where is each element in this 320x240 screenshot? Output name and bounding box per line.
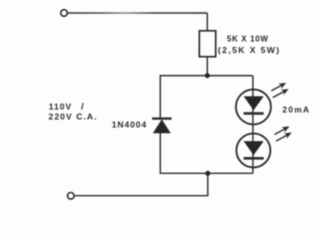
wire junction to bottom line xyxy=(207,173,209,195)
svg-text:220V C.A.: 220V C.A. xyxy=(49,112,98,122)
wire top horizontal xyxy=(68,12,208,14)
wire resistor to top rail xyxy=(206,57,208,76)
svg-text:1N4004: 1N4004 xyxy=(112,119,147,129)
wire diode branch upper xyxy=(159,75,161,118)
svg-text:(2,5K X 5W): (2,5K X 5W) xyxy=(218,45,281,55)
LED LED2 xyxy=(236,133,270,167)
terminal bottom-left xyxy=(68,193,75,200)
svg-text:110V: 110V xyxy=(49,101,72,111)
diode D1 1N4004 (pointing up) xyxy=(152,119,172,134)
LED1 emission arrows xyxy=(270,80,290,100)
wire bottom rail xyxy=(160,172,253,174)
svg-text:/: / xyxy=(81,101,84,112)
terminal top-left xyxy=(61,10,68,17)
wire top rail xyxy=(160,75,252,77)
wire LED branch vertical xyxy=(252,76,254,174)
svg-text:20mA: 20mA xyxy=(282,105,310,115)
wire bottom horizontal xyxy=(74,195,208,197)
LED2 emission arrows xyxy=(273,124,293,144)
node junction top xyxy=(205,73,210,78)
wire down to resistor xyxy=(206,13,208,31)
resistor R1 5K x 10W xyxy=(199,31,215,57)
wire diode branch lower xyxy=(159,133,161,173)
node junction bottom xyxy=(205,171,210,176)
LED LED1 xyxy=(236,89,271,124)
svg-text:5K X 10W: 5K X 10W xyxy=(227,34,269,43)
